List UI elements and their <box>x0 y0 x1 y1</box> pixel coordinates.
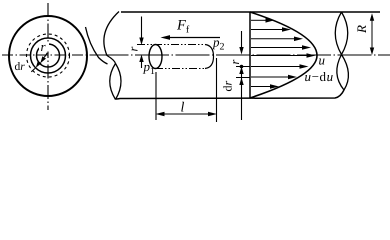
label r (cross-section) <box>39 42 49 52</box>
cylinder top edge (phantom line) <box>137 44 205 46</box>
fluid cylinder left face (ellipse) <box>149 45 162 69</box>
svg-text:Ff: Ff <box>176 18 190 36</box>
right pipe break lens <box>335 12 348 90</box>
dashed circle <box>27 34 70 77</box>
l dimension extension lines <box>156 58 217 122</box>
tick at u arrow level with junction dot <box>236 66 250 68</box>
svg-text:R: R <box>354 25 369 34</box>
left r dimension arrow (up to centerline) <box>139 55 143 69</box>
pipe top wall <box>121 11 380 13</box>
cylinder right face arc <box>205 45 214 69</box>
outer pipe wall circle (cross-section) <box>9 16 87 96</box>
svg-text:dr: dr <box>15 61 26 73</box>
velocity profile baseline <box>249 12 251 98</box>
horizontal centerline (pipe axis, dash-dot, full width) <box>2 54 95 56</box>
l dimension line with arrows <box>156 112 218 117</box>
axis velocity arrow (vertex) <box>251 53 316 58</box>
F_f friction force arrow <box>161 35 221 40</box>
left r dimension arrow (down) <box>139 17 143 46</box>
svg-text:l: l <box>181 101 185 116</box>
svg-text:p1: p1 <box>143 59 156 77</box>
svg-text:r: r <box>228 60 242 65</box>
velocity arrows below axis <box>251 64 309 89</box>
svg-text:dr: dr <box>221 81 235 92</box>
vertical centerline of cross-section circle <box>47 3 49 110</box>
right r/dr dimension vertical + arrows <box>239 31 243 120</box>
left pipe break lens <box>110 64 121 100</box>
circle radius r+dr <box>31 38 66 73</box>
cylinder bottom edge (phantom line) <box>155 68 205 70</box>
R dimension line (double arrow) <box>370 13 374 55</box>
svg-text:u−du: u−du <box>305 69 334 84</box>
dr arrow (to r+dr circle) <box>31 61 41 72</box>
radius r arrow (to inner circle, 225 deg) <box>40 53 47 63</box>
inner circle radius r <box>37 44 60 67</box>
pipe bottom wall <box>116 90 345 99</box>
svg-text:r: r <box>127 47 141 52</box>
left pipe break S-curve from top wall <box>104 12 119 64</box>
velocity profile parabola <box>250 12 317 98</box>
velocity arrows above axis <box>251 18 311 50</box>
tick at u-du arrow level <box>236 77 250 79</box>
left pipe break upper tail arc <box>86 27 108 64</box>
svg-text:u: u <box>319 53 326 68</box>
